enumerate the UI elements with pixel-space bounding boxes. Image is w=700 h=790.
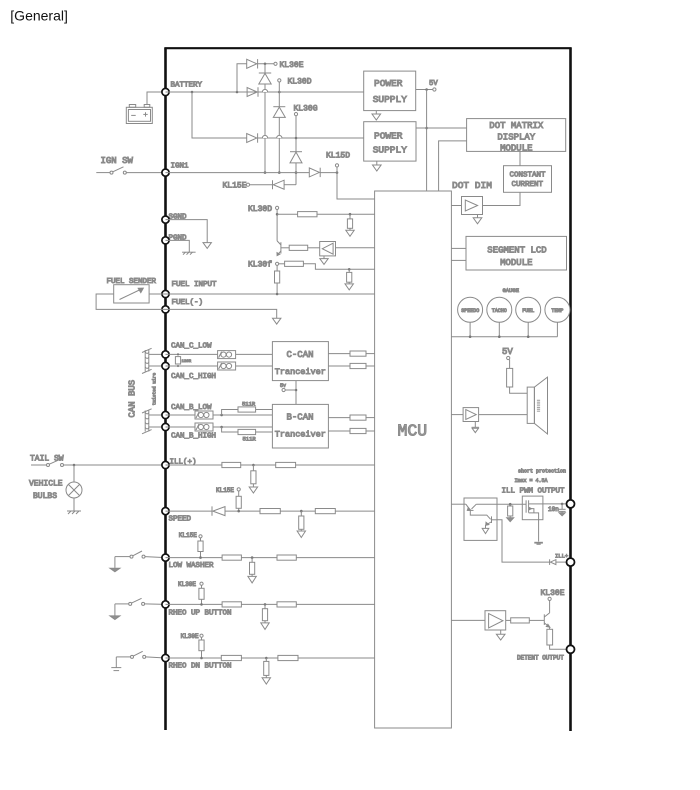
svg-text:KL30E: KL30E bbox=[178, 581, 196, 588]
junction KL30G row3 bbox=[295, 137, 298, 140]
svg-text:KL30f: KL30f bbox=[248, 261, 272, 270]
wire battery to BATTERY terminal bbox=[147, 92, 166, 105]
node KL30E rheoup open terminal bbox=[200, 582, 203, 585]
node 5V buzzer open terminal bbox=[507, 356, 510, 359]
node 5V open terminal bbox=[433, 88, 436, 91]
switch IGN SW bbox=[96, 167, 126, 174]
junction KL15D corner bbox=[336, 171, 339, 174]
wire FUEL(-) to ground bbox=[166, 309, 277, 318]
svg-text:PGND: PGND bbox=[169, 234, 188, 242]
ground filled washer switch bbox=[110, 568, 120, 572]
wire C-CAN out1 to MCU bbox=[366, 353, 375, 355]
resistor R rheodn series2 bbox=[278, 655, 298, 660]
ground arrow ILL pulldown bbox=[249, 487, 257, 493]
node RHEO UP terminal bbox=[162, 601, 169, 608]
svg-text:Tranceiver: Tranceiver bbox=[275, 429, 326, 439]
svg-text:C-CAN: C-CAN bbox=[287, 350, 314, 360]
resistor R C-CAN out1 bbox=[350, 351, 366, 356]
ground arrow KL30f pulldown bbox=[345, 284, 353, 290]
wire 5V riser down to MCU top bbox=[426, 90, 428, 192]
svg-text:511R: 511R bbox=[243, 436, 257, 443]
wire KL30D mid node bbox=[276, 210, 278, 241]
wire v1 riser KL30E node to IGN1 row bbox=[264, 64, 266, 173]
node CAN_C_HIGH terminal bbox=[162, 362, 169, 369]
resistor R 511R top bbox=[222, 407, 273, 415]
lamp vehicle bulb bbox=[66, 465, 82, 511]
svg-text:KL30E: KL30E bbox=[280, 61, 304, 70]
node KL30G open terminal bbox=[294, 113, 297, 116]
wire dot matrix second pin to MCU top bbox=[439, 141, 467, 191]
node KL15D open terminal bbox=[335, 164, 338, 167]
wire MCU to detent amp bbox=[451, 619, 485, 621]
wire CAN_B_LOW to choke bbox=[166, 414, 196, 416]
resistor R speed pullup bbox=[236, 491, 241, 511]
resistor R SPEED series1 bbox=[260, 509, 280, 514]
gauge TACHO bbox=[487, 297, 512, 322]
chassis ground vehicle bulb bbox=[67, 511, 81, 514]
wire MCU to buzzer amp bbox=[451, 414, 463, 416]
wire third diode row to power supply 2 bbox=[257, 137, 364, 139]
junction vehicle bulbs tap bbox=[73, 464, 76, 467]
resistor R C-CAN out2 bbox=[350, 363, 366, 368]
svg-text:CONSTANT: CONSTANT bbox=[510, 171, 547, 179]
resistor R KL30f series bbox=[285, 261, 304, 266]
switch RHEO UP bbox=[115, 598, 145, 615]
switch LOW WASHER bbox=[115, 551, 145, 568]
ground arrow washer pulldown bbox=[248, 576, 256, 583]
wire C-CAN out2 to resistor bbox=[328, 365, 350, 367]
wire dot dim amp to constant current bbox=[483, 192, 521, 205]
junction KL30D pulldown bbox=[349, 213, 352, 216]
diode D speed (points left) bbox=[212, 506, 225, 515]
op-amp DOT DIM buffer bbox=[462, 197, 483, 215]
wire LOW WASHER row to MCU bbox=[166, 557, 375, 559]
svg-text:5V: 5V bbox=[429, 80, 438, 88]
wire Q2 collector to ILL+ diode bbox=[497, 520, 550, 562]
wire B-CAN out2 to MCU bbox=[366, 430, 375, 432]
wire BATTERY rail to power supply 1 bbox=[166, 91, 364, 93]
wire rheoup switch to terminal bbox=[145, 603, 166, 606]
wire choke to C-CAN high bbox=[236, 365, 273, 367]
node PGND terminal bbox=[162, 237, 169, 244]
twisted wire symbol CAN C bbox=[142, 348, 152, 373]
node IGN1 terminal bbox=[162, 169, 169, 176]
resistor R ILL series2 bbox=[276, 462, 296, 467]
wire TAIL SW to ILL terminal bbox=[64, 464, 166, 466]
wire fuel sender return loop bbox=[96, 294, 165, 309]
resistor R washer pulldown bbox=[250, 558, 255, 577]
diode D KL30E bbox=[247, 59, 258, 68]
resistor R rheodn pullup bbox=[199, 637, 204, 658]
svg-text:FUEL INPUT: FUEL INPUT bbox=[172, 281, 218, 289]
junction rheoup pulldown bbox=[264, 603, 267, 606]
svg-text:5V: 5V bbox=[502, 347, 513, 357]
junction KL30E branch at battery rail bbox=[236, 91, 239, 94]
wire base resistor to transistor bbox=[529, 619, 544, 621]
svg-text:DETENT OUTPUT: DETENT OUTPUT bbox=[517, 655, 564, 662]
power supply U2 box bbox=[364, 122, 416, 161]
transistor M power mosfet box bbox=[522, 496, 543, 520]
ground arrow below dot dim amp bbox=[473, 215, 482, 224]
op-amp U comparator box bbox=[320, 242, 336, 256]
wire buzzer supply to plate bbox=[510, 387, 528, 393]
svg-text:KL30G: KL30G bbox=[294, 105, 318, 114]
transistor Q detent bbox=[544, 601, 550, 628]
wire B-CAN out2 to resistor bbox=[328, 430, 350, 432]
svg-text:FUEL: FUEL bbox=[522, 308, 534, 314]
ground filled rheoup switch bbox=[110, 616, 120, 620]
wire 5v stub bbox=[285, 389, 296, 391]
junction speed pullup tap bbox=[237, 510, 240, 513]
junction fuel chain bbox=[276, 293, 279, 296]
node BATTERY terminal bbox=[162, 88, 169, 95]
svg-text:KL15E: KL15E bbox=[179, 532, 197, 539]
node CAN_B_HIGH terminal bbox=[162, 423, 169, 430]
resistor R rheodn pulldown bbox=[264, 658, 269, 678]
ground filled snubber bbox=[559, 513, 565, 516]
border frame left heavy bus bbox=[164, 48, 167, 730]
svg-text:KL30D: KL30D bbox=[288, 78, 312, 87]
wire KL15D stub bbox=[336, 167, 338, 173]
diode D ILL+ (points left) bbox=[550, 559, 556, 565]
svg-text:CAN_C_LOW: CAN_C_LOW bbox=[171, 343, 212, 351]
resistor R ILL pulldown bbox=[251, 465, 256, 487]
svg-text:B-CAN: B-CAN bbox=[287, 413, 314, 423]
node LOW WASHER terminal bbox=[162, 554, 169, 561]
junction 5V riser at PS2 output row bbox=[425, 127, 428, 130]
wire CAN_C_LOW to choke bbox=[166, 353, 218, 355]
dot matrix display module box bbox=[467, 119, 566, 154]
diode D on v3 riser (points up) bbox=[290, 152, 302, 163]
svg-text:DISPLAY: DISPLAY bbox=[497, 132, 535, 142]
wire comparator to MCU bbox=[336, 247, 375, 249]
switch TAIL SW bbox=[31, 459, 64, 466]
svg-text:POWER: POWER bbox=[374, 78, 403, 89]
resistor R gate pulldown bbox=[508, 504, 513, 517]
resistor R SPEED pulldown bbox=[299, 511, 304, 531]
svg-text:BULBS: BULBS bbox=[33, 492, 57, 501]
svg-text:SEGMENT LCD: SEGMENT LCD bbox=[487, 245, 546, 255]
resistor R rheoup pulldown bbox=[262, 604, 267, 623]
buzzer LS1 bbox=[527, 377, 547, 434]
svg-text:LOW WASHER: LOW WASHER bbox=[169, 562, 215, 570]
wire MCU to ill driver box bbox=[451, 503, 464, 505]
node KL30E open terminal bbox=[274, 62, 277, 65]
svg-text:10n: 10n bbox=[548, 506, 559, 513]
resistor R SPEED series2 bbox=[315, 509, 335, 514]
wire detent resistor to terminal bbox=[550, 645, 571, 649]
node CAN_C_LOW terminal bbox=[162, 351, 169, 358]
wire SPEED row to MCU bbox=[225, 510, 375, 512]
svg-text:CAN_B_HIGH: CAN_B_HIGH bbox=[171, 433, 216, 441]
wire ILL+ diode to terminal bbox=[556, 561, 571, 563]
wire CAN_C_LOW stub bbox=[149, 353, 166, 355]
wire dot matrix to constant current bbox=[519, 151, 521, 165]
node KL15E washer open terminal bbox=[199, 535, 202, 538]
wire ill driver to mosfet gate bbox=[497, 503, 526, 505]
node KL30f open junction bbox=[276, 262, 279, 265]
transistor Q1 fuel sense bbox=[277, 241, 281, 256]
node SGND terminal bbox=[162, 216, 169, 223]
resistor R rheoup series2 bbox=[277, 602, 296, 607]
wire Q1 base to resistor bbox=[281, 247, 289, 249]
node RHEO DN terminal bbox=[162, 654, 169, 661]
svg-text:SPEEDO: SPEEDO bbox=[461, 308, 479, 314]
ground arrow detent amp bbox=[496, 630, 505, 640]
wire C-CAN out1 to resistor bbox=[328, 353, 350, 355]
ground arrow buzzer amp bbox=[472, 422, 479, 433]
chassis ground PGND bbox=[182, 252, 196, 254]
junction rheodn pulldown bbox=[265, 657, 268, 660]
diode D KL15E (points left) bbox=[273, 180, 285, 189]
svg-text:CAN BUS: CAN BUS bbox=[128, 380, 138, 418]
node FUEL INPUT terminal bbox=[162, 290, 169, 297]
node DETENT OUTPUT terminal bbox=[567, 645, 575, 653]
junction v3 IGN1 bbox=[295, 171, 298, 174]
node KL30D open terminal bbox=[278, 79, 281, 82]
node KL30E rheodn open terminal bbox=[200, 634, 203, 637]
ground arrow below comparator bbox=[320, 256, 328, 265]
wire CAN_B_HIGH to choke bbox=[166, 426, 196, 428]
svg-text:[General]: [General] bbox=[10, 8, 68, 24]
MCU box bbox=[375, 191, 452, 728]
svg-text:VEHICLE: VEHICLE bbox=[29, 480, 63, 489]
svg-text:511R: 511R bbox=[242, 400, 256, 407]
junction KL30D node bbox=[278, 91, 281, 94]
border frame right heavy bus bbox=[569, 48, 572, 731]
resistor R 511R bottom bbox=[222, 427, 273, 435]
resistor R detent base bbox=[511, 618, 530, 623]
svg-text:IGN SW: IGN SW bbox=[101, 156, 134, 166]
svg-text:SGND: SGND bbox=[169, 213, 188, 221]
svg-text:Tranceiver: Tranceiver bbox=[275, 367, 326, 377]
svg-text:SPEED: SPEED bbox=[169, 516, 192, 524]
junction 5v link bbox=[295, 389, 298, 392]
junction KL30D mid bbox=[276, 213, 279, 216]
junction washer pulldown bbox=[251, 556, 254, 559]
resistor R washer series2 bbox=[277, 555, 296, 560]
svg-text:short protection: short protection bbox=[518, 468, 566, 474]
svg-text:RHEO UP BUTTON: RHEO UP BUTTON bbox=[169, 610, 232, 618]
resistor R KL30D series bbox=[298, 212, 317, 217]
svg-text:KL30E: KL30E bbox=[181, 633, 199, 640]
junction KL30f pulldown bbox=[348, 268, 351, 271]
wire choke to B-CAN low bbox=[213, 414, 272, 416]
wire SPEED terminal to diode bbox=[166, 510, 213, 512]
svg-text:SUPPLY: SUPPLY bbox=[373, 145, 408, 156]
junction 511R high tap bbox=[220, 426, 223, 429]
svg-text:MCU: MCU bbox=[398, 422, 428, 441]
wire KL15D corner to MCU bbox=[337, 173, 375, 199]
wire mosfet source to ground bbox=[538, 520, 540, 542]
junction KL30E node bbox=[264, 63, 267, 66]
svg-text:ILL+: ILL+ bbox=[555, 552, 568, 559]
wire KL30G riser to row3 bbox=[295, 116, 297, 152]
svg-text:KL30D: KL30D bbox=[248, 205, 272, 214]
wire PGND to chassis ground bbox=[166, 240, 190, 252]
ground arrow SPEED pulldown bbox=[297, 531, 305, 538]
wire rheodn switch to terminal bbox=[146, 657, 166, 658]
node KL30E detent open terminal bbox=[548, 597, 551, 600]
resistor R B-CAN out1 bbox=[350, 415, 366, 420]
wire drop to third diode row bbox=[192, 92, 247, 138]
svg-text:TAIL SW: TAIL SW bbox=[30, 454, 64, 463]
ground filled gate pulldown bbox=[507, 518, 514, 522]
chassis ground rheodn switch bbox=[111, 668, 121, 671]
svg-text:KL15E: KL15E bbox=[223, 182, 247, 191]
gauge FUEL bbox=[516, 297, 541, 322]
node ILL(+) terminal bbox=[162, 461, 169, 468]
junction v2 IGN1 bbox=[278, 171, 281, 174]
node KL15E open terminal bbox=[246, 183, 249, 186]
wire C-CAN out2 to MCU bbox=[366, 365, 375, 367]
op-amp detent driver bbox=[485, 611, 506, 630]
ground arrow FUEL(-) bbox=[273, 318, 281, 324]
node ILL PWM OUTPUT terminal bbox=[567, 500, 575, 508]
transistor pair Q ill driver box bbox=[464, 498, 497, 540]
wire MCU to dot dim amp bbox=[451, 205, 461, 207]
gauge TEMP bbox=[545, 297, 570, 322]
wire B-CAN out1 to MCU bbox=[366, 417, 375, 419]
svg-text:TACHO: TACHO bbox=[492, 308, 507, 314]
node 5v open terminal bbox=[282, 388, 285, 391]
svg-text:CURRENT: CURRENT bbox=[512, 181, 544, 189]
resistor R KL30D pulldown bbox=[347, 214, 352, 230]
svg-text:5v: 5v bbox=[280, 383, 286, 389]
wire C-CAN to B-CAN 5v link bbox=[295, 381, 297, 405]
resistor R washer pullup bbox=[198, 538, 203, 558]
junction battery drop bbox=[191, 91, 194, 94]
wire KL15E terminal to diode bbox=[250, 184, 273, 186]
switch RHEO DN bbox=[116, 651, 145, 667]
constant current box bbox=[504, 166, 552, 193]
resistor R rheoup pullup bbox=[199, 585, 204, 604]
op-amp buzzer driver bbox=[463, 408, 479, 422]
diode D KL30D row bbox=[247, 87, 258, 96]
wire IGN1 row to KL15D diode bbox=[166, 172, 310, 174]
battery symbol bbox=[126, 105, 152, 124]
label VEHICLE BULBS bbox=[29, 480, 63, 501]
resistor R fuel pullup chain bbox=[275, 265, 280, 294]
wire KL30D terminal riser bbox=[278, 82, 280, 92]
svg-text:CAN_C_HIGH: CAN_C_HIGH bbox=[171, 373, 216, 381]
wire KL15D diode to corner bbox=[320, 172, 337, 174]
wire B-CAN out1 to resistor bbox=[328, 417, 350, 419]
svg-text:RHEO DN BUTTON: RHEO DN BUTTON bbox=[169, 663, 232, 671]
node CAN_B_LOW terminal bbox=[162, 411, 169, 418]
node KL30D mid open terminal bbox=[276, 206, 279, 209]
diode D on v1 riser (points up) bbox=[259, 73, 271, 84]
resistor R B-CAN out2 bbox=[350, 428, 366, 433]
svg-text:SUPPLY: SUPPLY bbox=[373, 94, 408, 105]
choke L CAN_B_LOW bbox=[195, 411, 213, 419]
wire choke to B-CAN high bbox=[213, 426, 272, 428]
wire washer switch to terminal bbox=[145, 557, 166, 558]
power supply U1 box bbox=[364, 71, 416, 111]
gauge SPEEDO bbox=[458, 297, 483, 322]
svg-text:KL30E: KL30E bbox=[541, 589, 565, 598]
resistor R rheoup series1 bbox=[222, 602, 241, 607]
segment lcd module box bbox=[466, 236, 567, 270]
wire MCU to segment lcd pin1 bbox=[451, 247, 466, 249]
B-CAN tranceiver U box bbox=[272, 404, 328, 448]
wire KL15E diode to v3 bbox=[284, 184, 296, 186]
ground arrow KL30D pulldown bbox=[346, 230, 354, 236]
wire buzzer amp to plate bbox=[479, 414, 528, 416]
ground arrow rheodn pulldown bbox=[262, 678, 270, 684]
svg-text:GAUGE: GAUGE bbox=[503, 287, 520, 294]
choke L CAN_C_HIGH bbox=[218, 362, 236, 370]
wire KL30D row to MCU bbox=[277, 213, 375, 215]
svg-text:120R: 120R bbox=[182, 360, 192, 364]
wire SGND to ground bbox=[166, 220, 208, 243]
resistor R washer series1 bbox=[222, 555, 241, 560]
ground arrow below power supply 2 bbox=[373, 161, 382, 171]
junction rheoup pullup tap bbox=[200, 603, 203, 606]
wire v2 riser KL30D node to IGN1 row bbox=[278, 92, 280, 173]
wire power supply 2 output to dot matrix module bbox=[416, 127, 467, 129]
junction ILL pulldown bbox=[252, 464, 255, 467]
resistor R rheodn series1 bbox=[221, 655, 241, 660]
capacitor C 10n bbox=[559, 504, 566, 513]
junction gauge bus dots bbox=[469, 335, 530, 338]
wire KL30f row to bend bbox=[279, 264, 375, 270]
resistor R detent emitter bbox=[547, 627, 553, 645]
resistor R 120R termination bbox=[175, 353, 191, 367]
junction rheodn pullup tap bbox=[200, 657, 203, 660]
wire detent amp to base resistor bbox=[506, 619, 511, 621]
wire MCU to segment lcd pin2 bbox=[451, 259, 466, 261]
svg-text:POWER: POWER bbox=[374, 130, 403, 141]
junction SPEED pulldown bbox=[300, 510, 303, 513]
wire hop row3 over v1 bbox=[262, 135, 267, 138]
resistor R ILL series1 bbox=[222, 462, 241, 467]
svg-text:twisted wire: twisted wire bbox=[152, 372, 158, 405]
wire FUEL INPUT row to MCU bbox=[166, 293, 375, 295]
wire CAN_B_LOW stub bbox=[149, 414, 166, 416]
node SPEED terminal bbox=[162, 508, 169, 515]
svg-text:ILL PWM OUTPUT: ILL PWM OUTPUT bbox=[502, 488, 566, 496]
junction washer pullup tap bbox=[199, 556, 202, 559]
svg-text:KL15D: KL15D bbox=[326, 151, 350, 160]
junction gate resistor tap bbox=[509, 503, 512, 506]
ground arrow rheoup pulldown bbox=[261, 623, 269, 630]
svg-text:TEMP: TEMP bbox=[551, 308, 563, 314]
wire KL30E branch riser bbox=[237, 64, 247, 92]
fuel sender box bbox=[114, 285, 149, 303]
junction 5V bbox=[425, 88, 428, 91]
node ILL+ terminal bbox=[567, 558, 575, 566]
resistor R base bbox=[289, 245, 308, 250]
svg-text:BATTERY: BATTERY bbox=[171, 82, 203, 90]
svg-text:MODULE: MODULE bbox=[500, 258, 532, 268]
border frame top bbox=[164, 47, 571, 49]
diode D third row bbox=[247, 133, 258, 142]
C-CAN tranceiver U box bbox=[272, 342, 328, 381]
wire CAN_C_HIGH stub bbox=[149, 365, 166, 367]
twisted wire symbol CAN B bbox=[142, 409, 152, 434]
choke L CAN_B_HIGH bbox=[195, 423, 213, 431]
svg-text:KL15E: KL15E bbox=[216, 487, 234, 494]
wire fuel sender to FUEL INPUT bbox=[149, 293, 165, 295]
diode D on v2 riser (points up) bbox=[273, 107, 285, 118]
ground filled mosfet source bbox=[534, 542, 543, 545]
resistor R buzzer supply bbox=[507, 360, 513, 387]
wire KL30E diode to terminal bbox=[258, 63, 274, 65]
junction 511R low tap bbox=[220, 414, 223, 417]
wire mosfet drain to ILL PWM terminal bbox=[543, 503, 571, 505]
svg-text:DOT DIM: DOT DIM bbox=[452, 180, 492, 191]
